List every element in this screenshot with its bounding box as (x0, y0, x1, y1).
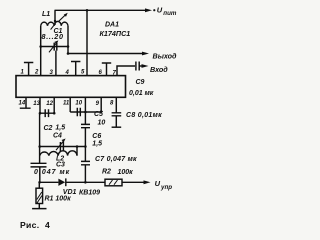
svg-text:1,5: 1,5 (55, 124, 65, 131)
svg-text:0,01 мк: 0,01 мк (129, 90, 154, 97)
svg-text:Выход: Выход (153, 51, 178, 60)
svg-text:10: 10 (75, 101, 82, 107)
svg-text:4: 4 (45, 220, 50, 230)
svg-text:С2: С2 (44, 125, 53, 132)
svg-text:L1: L1 (42, 11, 50, 18)
svg-text:Рис.: Рис. (20, 220, 39, 230)
svg-text:11: 11 (63, 101, 70, 107)
svg-text:пит: пит (163, 10, 177, 17)
svg-text:8...20: 8...20 (42, 32, 64, 41)
svg-text:С3: С3 (56, 161, 65, 168)
svg-text:КВ109: КВ109 (79, 190, 100, 197)
svg-text:С9: С9 (136, 79, 145, 86)
svg-text:Вход: Вход (150, 65, 168, 74)
svg-text:100к: 100к (118, 169, 134, 176)
svg-text:1,5: 1,5 (92, 141, 102, 148)
svg-text:13: 13 (33, 101, 40, 107)
svg-text:С7 0,047 мк: С7 0,047 мк (95, 156, 137, 163)
svg-text:упр: упр (160, 184, 172, 191)
svg-text:DA1: DA1 (105, 22, 119, 29)
svg-text:0,047 мк: 0,047 мк (34, 169, 70, 176)
svg-text:10: 10 (98, 120, 106, 127)
svg-text:14: 14 (19, 101, 26, 107)
svg-text:U: U (157, 6, 163, 15)
svg-text:U: U (155, 179, 161, 188)
svg-text:12: 12 (46, 101, 53, 107)
svg-text:С5: С5 (94, 111, 103, 118)
svg-text:С8 0,01мк: С8 0,01мк (126, 112, 162, 119)
svg-text:С6: С6 (92, 133, 101, 140)
svg-text:R2: R2 (102, 169, 111, 176)
svg-text:4: 4 (65, 70, 70, 76)
svg-text:С4: С4 (53, 132, 62, 139)
svg-text:2: 2 (34, 70, 39, 76)
svg-text:К174ПС1: К174ПС1 (100, 29, 131, 38)
svg-text:R1 100к: R1 100к (45, 196, 72, 203)
